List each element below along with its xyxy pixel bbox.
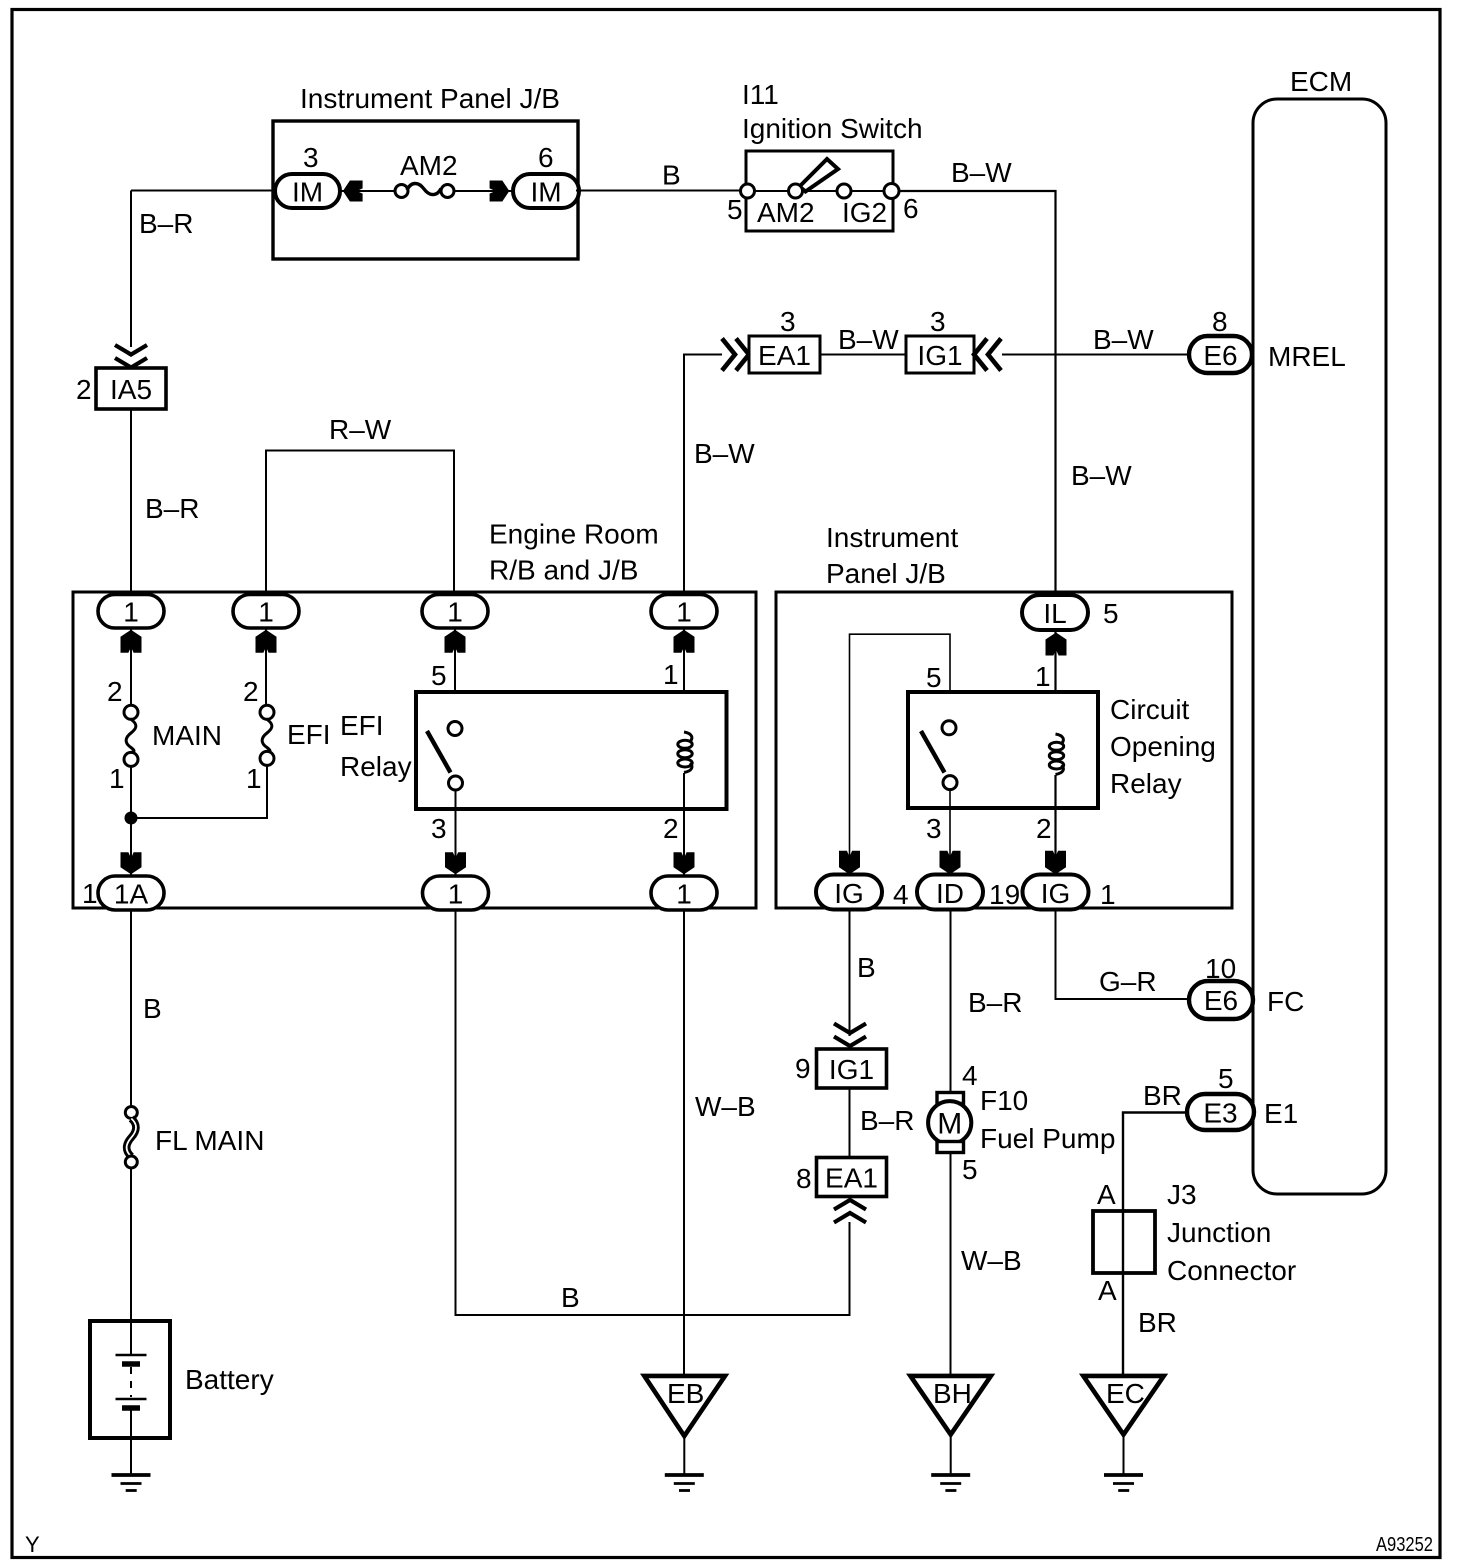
- svg-text:19: 19: [989, 879, 1020, 910]
- svg-text:1: 1: [1100, 879, 1116, 910]
- connector chevrons into IG1 (point left): [974, 339, 1001, 371]
- EFI relay contact: [427, 722, 463, 791]
- wire relay contact 5 branch to IG terminal: [850, 634, 951, 876]
- svg-text:6: 6: [538, 142, 554, 173]
- ignition switch I11: [727, 79, 923, 231]
- wire inside J/B from fuse AM2 to IM 6: [453, 190, 515, 192]
- wire B-W from IG1 chevrons to ECM terminal E6: [1002, 354, 1190, 356]
- svg-text:1: 1: [123, 597, 139, 628]
- connector chevrons into IA5 (point down): [115, 345, 147, 368]
- svg-text:9: 9: [795, 1053, 811, 1084]
- svg-text:B–R: B–R: [145, 493, 199, 524]
- svg-text:A: A: [1098, 1275, 1117, 1306]
- label Circuit Opening Relay: [1110, 694, 1216, 799]
- svg-text:1: 1: [447, 597, 463, 628]
- wire B-W from ignition switch terminal 6: [899, 191, 1056, 596]
- wire oval to relay coil: [683, 628, 685, 732]
- fuse AM2: [395, 150, 458, 198]
- wire inside J/B from IM 3 to fuse AM2: [338, 190, 396, 192]
- ground (EC): [1104, 1475, 1143, 1491]
- ECM terminal oval E3 (E1): [1187, 1094, 1254, 1130]
- svg-text:AM2: AM2: [757, 197, 815, 228]
- arrow down (1A column): [121, 852, 142, 874]
- wire relay coil 2 down to IG: [1054, 775, 1056, 878]
- arrow down above ID: [940, 851, 961, 875]
- svg-text:I11: I11: [742, 79, 779, 110]
- svg-text:5: 5: [1218, 1063, 1234, 1094]
- arrow down above IG (right): [1045, 851, 1066, 875]
- junction block: Instrument Panel J/B (top): [273, 83, 578, 259]
- svg-text:1: 1: [246, 763, 262, 794]
- EFI relay coil: [678, 732, 692, 773]
- svg-text:EC: EC: [1106, 1378, 1145, 1409]
- svg-text:1: 1: [258, 597, 274, 628]
- svg-text:ID: ID: [936, 878, 964, 909]
- wire relay coil 2 down: [683, 773, 685, 878]
- svg-text:2: 2: [243, 676, 259, 707]
- svg-text:Circuit: Circuit: [1110, 694, 1190, 725]
- terminal oval 1 (relay coil column, bottom): [651, 876, 717, 910]
- ground (battery): [112, 1475, 151, 1491]
- svg-text:Relay: Relay: [1110, 768, 1182, 799]
- wire BH to ground: [950, 1435, 952, 1474]
- svg-text:4: 4: [962, 1060, 978, 1091]
- wire B-R from IA5 down to Engine Room J/B: [130, 409, 132, 596]
- fuel pump F10: [928, 1085, 1115, 1154]
- wire junction to EFI fuse bottom: [131, 765, 267, 818]
- svg-text:MREL: MREL: [1268, 341, 1346, 372]
- svg-text:G–R: G–R: [1099, 966, 1157, 997]
- svg-text:1: 1: [676, 879, 692, 910]
- terminal oval 1 (EFI fuse column, top): [233, 595, 299, 629]
- wire BR from E3 to J3: [1123, 1113, 1187, 1212]
- junction connector J3: [1093, 1179, 1296, 1286]
- ground triangle EB: [644, 1376, 725, 1436]
- svg-text:IG2: IG2: [842, 197, 887, 228]
- terminal IG2 contact: [837, 184, 851, 198]
- junction node: [125, 812, 138, 825]
- circuit opening relay coil: [1049, 734, 1063, 775]
- svg-text:Engine Room: Engine Room: [489, 519, 659, 550]
- arrow down above IG (left): [839, 851, 860, 875]
- svg-text:IM: IM: [292, 177, 323, 208]
- wire W-B from coil oval down to EB ground: [683, 910, 685, 1377]
- arrow up (relay contact column): [445, 630, 466, 653]
- arrow into IM 6 (points right): [490, 181, 510, 202]
- svg-text:J3: J3: [1167, 1179, 1197, 1210]
- svg-text:Connector: Connector: [1167, 1255, 1296, 1286]
- svg-text:1: 1: [663, 659, 679, 690]
- svg-text:FL MAIN: FL MAIN: [155, 1125, 264, 1156]
- svg-text:Relay: Relay: [340, 751, 412, 782]
- svg-text:Battery: Battery: [185, 1364, 274, 1395]
- ECM: [1253, 66, 1386, 1194]
- junction block: Instrument Panel J/B (right): [776, 522, 1232, 908]
- svg-text:BR: BR: [1143, 1080, 1182, 1111]
- svg-text:W–B: W–B: [961, 1245, 1022, 1276]
- svg-text:B–R: B–R: [968, 987, 1022, 1018]
- svg-text:B–W: B–W: [1093, 324, 1154, 355]
- svg-text:Fuel Pump: Fuel Pump: [980, 1123, 1115, 1154]
- terminal oval IM (pin 6): [513, 174, 579, 208]
- svg-text:B–R: B–R: [139, 208, 193, 239]
- svg-text:BR: BR: [1138, 1307, 1177, 1338]
- svg-text:8: 8: [1212, 306, 1228, 337]
- wire BR from J3 to EC ground: [1122, 1273, 1124, 1377]
- wire IL to relay coil 1: [1054, 630, 1056, 734]
- arrow down (relay coil column bottom): [674, 852, 695, 874]
- svg-text:B: B: [143, 993, 162, 1024]
- svg-text:B–W: B–W: [694, 438, 755, 469]
- wire oval to relay contact 5: [454, 628, 456, 722]
- connector IA5: [96, 368, 166, 409]
- wire relay contact 3 down to ID: [949, 790, 951, 876]
- svg-text:B: B: [561, 1282, 580, 1313]
- wire B-R between IG1 and EA1: [849, 1088, 851, 1157]
- svg-text:E6: E6: [1203, 340, 1237, 371]
- svg-text:5: 5: [962, 1154, 978, 1185]
- wire G-R from IG 1 to ECM FC: [1056, 910, 1191, 999]
- svg-text:B–R: B–R: [860, 1105, 914, 1136]
- svg-text:FC: FC: [1267, 986, 1304, 1017]
- ECM terminal oval E6 (MREL): [1189, 336, 1252, 373]
- arrow into IM 3 (points left): [343, 181, 363, 202]
- svg-text:F10: F10: [980, 1085, 1028, 1116]
- switch lever: [800, 159, 839, 192]
- wire B from MAIN 1A down to FL MAIN: [130, 910, 132, 1106]
- wire W-B from fuel pump to BH ground: [950, 1153, 952, 1378]
- wire B-R down to IA5: [130, 191, 132, 348]
- svg-text:5: 5: [727, 194, 743, 225]
- svg-text:B: B: [662, 160, 681, 191]
- wire R-W linking EFI fuse column to EFI relay contact column: [266, 451, 454, 597]
- wire B from IM 6 to ignition switch: [576, 190, 747, 192]
- svg-text:EFI: EFI: [340, 710, 384, 741]
- svg-text:3: 3: [926, 813, 942, 844]
- connector IG1: [906, 336, 974, 373]
- svg-text:IG: IG: [834, 878, 864, 909]
- svg-text:Opening: Opening: [1110, 731, 1216, 762]
- svg-text:IM: IM: [530, 177, 561, 208]
- wire relay contact 3 down: [455, 790, 457, 878]
- svg-text:3: 3: [930, 306, 946, 337]
- circuit opening relay contact: [921, 721, 957, 790]
- svg-text:1: 1: [82, 878, 98, 909]
- connector chevrons below EA1 (point up): [834, 1200, 866, 1223]
- connector IG1 (lower): [817, 1049, 887, 1088]
- svg-text:IG1: IG1: [917, 340, 962, 371]
- svg-text:4: 4: [893, 879, 909, 910]
- terminal 5 contact: [741, 184, 755, 198]
- connector chevrons into EA1 (point right): [722, 339, 749, 371]
- terminal oval 1A (bottom): [98, 876, 164, 910]
- terminal oval IG (pin 1): [1023, 875, 1089, 910]
- wire battery to ground: [130, 1438, 132, 1474]
- terminal 6 contact: [884, 184, 899, 199]
- svg-text:IA5: IA5: [110, 374, 152, 405]
- arrow up (MAIN column): [121, 630, 142, 653]
- terminal oval 1 (relay contact column, top): [422, 595, 488, 629]
- svg-text:B–W: B–W: [1071, 460, 1132, 491]
- svg-text:EA1: EA1: [758, 340, 811, 371]
- EFI relay box: [416, 692, 727, 809]
- svg-text:1: 1: [109, 763, 125, 794]
- svg-text:BH: BH: [933, 1378, 972, 1409]
- wire EC to ground: [1123, 1435, 1125, 1474]
- svg-text:1: 1: [448, 879, 464, 910]
- svg-text:IG1: IG1: [829, 1054, 874, 1085]
- svg-text:5: 5: [431, 660, 447, 691]
- svg-text:R/B and J/B: R/B and J/B: [489, 555, 638, 586]
- svg-text:Ignition Switch: Ignition Switch: [742, 113, 923, 144]
- svg-text:R–W: R–W: [329, 414, 392, 445]
- svg-text:M: M: [937, 1108, 962, 1141]
- svg-text:A: A: [1097, 1179, 1116, 1210]
- svg-text:5: 5: [1103, 598, 1119, 629]
- connector chevrons into IG1 (point down): [834, 1024, 866, 1047]
- svg-text:A93252: A93252: [1376, 1534, 1433, 1556]
- junction block: Engine Room R/B and J/B: [73, 519, 756, 909]
- svg-text:2: 2: [107, 676, 123, 707]
- wire EB to ground: [683, 1436, 685, 1474]
- svg-text:2: 2: [663, 813, 679, 844]
- battery: [90, 1321, 274, 1438]
- arrow up below IL: [1046, 633, 1067, 656]
- wire B from IG 4 down to IG1 connector: [849, 910, 851, 1036]
- terminal oval IL: [1022, 595, 1088, 630]
- svg-text:8: 8: [796, 1163, 812, 1194]
- svg-text:IL: IL: [1043, 598, 1066, 629]
- svg-text:AM2: AM2: [400, 150, 458, 181]
- svg-text:EB: EB: [667, 1378, 704, 1409]
- svg-text:Y: Y: [25, 1532, 40, 1557]
- ECM terminal oval E6 (FC): [1189, 981, 1253, 1019]
- ground (EB): [665, 1475, 704, 1491]
- terminal oval 1 (relay coil column, top): [651, 595, 717, 629]
- wire B-R horizontal from IM terminal 3 to left column: [131, 190, 276, 192]
- svg-text:MAIN: MAIN: [152, 720, 222, 751]
- svg-text:IG: IG: [1041, 878, 1071, 909]
- circuit opening relay box: [908, 692, 1098, 808]
- terminal AM2 contact: [789, 184, 803, 198]
- connector EA1: [749, 336, 820, 373]
- svg-text:Junction: Junction: [1167, 1217, 1271, 1248]
- svg-text:Instrument Panel J/B: Instrument Panel J/B: [300, 83, 560, 114]
- wire MAIN fuse to 1A oval with junction: [130, 766, 132, 878]
- svg-text:EFI: EFI: [287, 719, 331, 750]
- svg-text:E3: E3: [1203, 1098, 1237, 1129]
- wire B-W from EA1 connector down to relay coil column: [684, 355, 722, 597]
- arrow up (EFI column): [256, 630, 277, 653]
- wire oval to EFI fuse: [265, 628, 267, 706]
- wire B from relay contact 3 oval down and right to EA1 branch: [456, 910, 850, 1315]
- svg-text:3: 3: [303, 142, 319, 173]
- svg-text:6: 6: [903, 193, 919, 224]
- svg-text:3: 3: [431, 813, 447, 844]
- ground triangle BH: [910, 1376, 991, 1435]
- svg-text:W–B: W–B: [695, 1091, 756, 1122]
- terminal oval ID (pin 19): [917, 875, 983, 910]
- connector EA1 (lower): [817, 1158, 887, 1197]
- fusible link FL MAIN: [125, 1107, 264, 1169]
- ground (BH): [931, 1475, 970, 1491]
- ground triangle EC: [1083, 1376, 1164, 1435]
- arrow up (relay coil column): [674, 630, 695, 653]
- svg-text:E6: E6: [1204, 985, 1238, 1016]
- svg-text:Instrument: Instrument: [826, 522, 958, 553]
- wire B-W between EA1 and IG1: [820, 354, 906, 356]
- terminal oval IG (pin 4): [816, 875, 882, 910]
- fuse EFI: [243, 676, 331, 794]
- svg-text:1: 1: [676, 597, 692, 628]
- terminal oval 1 (MAIN fuse column, top): [98, 595, 164, 629]
- wire B-R from ID 19 down to fuel pump: [950, 910, 952, 1093]
- terminal oval 1 (relay contact column, bottom): [423, 876, 489, 910]
- wire oval to MAIN fuse: [130, 628, 132, 706]
- svg-text:Panel J/B: Panel J/B: [826, 558, 946, 589]
- wire FL MAIN to battery: [130, 1169, 132, 1322]
- svg-text:ECM: ECM: [1290, 66, 1352, 97]
- svg-text:B–W: B–W: [838, 324, 899, 355]
- svg-text:2: 2: [76, 374, 92, 405]
- svg-text:B–W: B–W: [951, 157, 1012, 188]
- svg-text:1A: 1A: [114, 879, 149, 910]
- svg-text:E1: E1: [1264, 1098, 1298, 1129]
- svg-text:2: 2: [1036, 813, 1052, 844]
- svg-text:3: 3: [780, 306, 796, 337]
- svg-text:EA1: EA1: [825, 1163, 878, 1194]
- svg-text:5: 5: [926, 662, 942, 693]
- svg-text:1: 1: [1035, 661, 1051, 692]
- terminal oval IM (pin 3): [275, 174, 340, 208]
- svg-text:B: B: [857, 952, 876, 983]
- arrow down (relay contact column bottom): [445, 852, 466, 874]
- fuse MAIN: [107, 676, 222, 794]
